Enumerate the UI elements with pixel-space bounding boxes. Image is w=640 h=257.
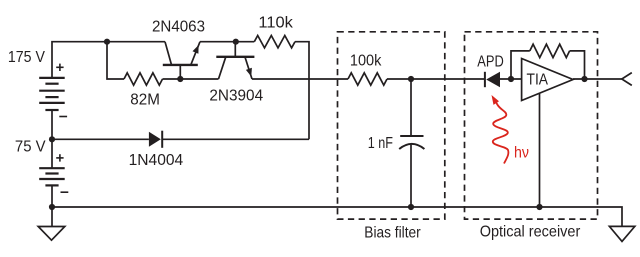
resistor 82M [124, 73, 163, 85]
wire capacitor column bottom [410, 145, 412, 207]
battery B1 175V plates [39, 78, 64, 110]
ground left [38, 227, 65, 241]
capacitor C1 bottom curved plate [399, 144, 424, 149]
diode D1 1N4004 cathode bar [161, 131, 163, 148]
transistor Q2 2N3904 emitter [245, 57, 252, 79]
node dot battery ground [49, 204, 55, 210]
node dot 100k/cap [408, 76, 414, 82]
wire APD anode to TIA input [500, 78, 522, 80]
svg-text:110k: 110k [258, 15, 294, 32]
transistor Q1 2N4063 emitter [191, 42, 200, 65]
svg-text:82M: 82M [130, 92, 160, 109]
photon arrow hv red squiggle [493, 102, 509, 164]
resistor 100k [348, 73, 387, 85]
battery B2 75V plates [39, 168, 64, 185]
svg-text:1 nF: 1 nF [368, 135, 393, 152]
node dot TIA output [581, 76, 587, 82]
wire TIA power lead [539, 94, 541, 207]
svg-text:Optical receiver: Optical receiver [480, 224, 581, 241]
svg-text:2N4063: 2N4063 [152, 19, 205, 36]
Bias filter dashed box [338, 32, 445, 219]
svg-text:TIA: TIA [527, 71, 549, 88]
battery B2 minus sign [61, 191, 69, 193]
wire TIA input node to feedback [511, 51, 530, 79]
diode D1 1N4004 triangle [149, 132, 161, 147]
wire diode line left [52, 138, 149, 140]
transistor Q2 2N3904 base bar [216, 56, 254, 58]
node dot cap bottom rail [408, 204, 414, 210]
battery B2 plus sign [56, 154, 63, 161]
photodiode APD triangle [486, 72, 500, 87]
resistor 110k [254, 36, 295, 48]
output connector chevron [622, 73, 632, 86]
svg-text:1N4004: 1N4004 [129, 152, 184, 169]
capacitor C1 top plate [400, 135, 423, 137]
ground right [609, 226, 634, 241]
Optical receiver dashed box [465, 32, 598, 219]
wire capacitor column top [410, 79, 412, 136]
wire battery1 bottom to 75V node to battery2 [51, 110, 53, 168]
wire TIA output to connector [573, 78, 622, 80]
wire feedback to output node [570, 51, 585, 79]
wire 110k to corner down to diode line [295, 42, 309, 140]
node dot TIA power bottom rail [536, 204, 542, 210]
photon arrowhead [492, 95, 500, 105]
transistor Q2 2N3904 base lead [234, 42, 236, 57]
node dot TIA input [508, 76, 514, 82]
node dot A [104, 39, 110, 45]
node dot Q1 base / 82M [177, 76, 183, 82]
transistor Q2 2N3904 collector [219, 57, 226, 79]
wire top rail left from battery to Q1 collector [52, 42, 165, 78]
svg-text:75 V: 75 V [15, 139, 46, 156]
svg-text:APD: APD [477, 54, 504, 71]
transistor Q2 emitter arrowhead [246, 68, 252, 77]
transistor Q1 2N4063 base bar [163, 64, 198, 66]
battery B1 plus sign [56, 64, 63, 71]
transistor Q1 emitter arrowhead [193, 45, 199, 54]
transistor Q1 2N4063 base lead [179, 65, 181, 79]
wire 82M to Q1 base node to Q2 collector [163, 78, 219, 80]
svg-text:Bias filter: Bias filter [364, 224, 421, 241]
node dot B top rail [233, 39, 239, 45]
op-amp U1 TIA triangle [522, 59, 573, 101]
wire diode line right [162, 138, 309, 140]
svg-text:175 V: 175 V [8, 49, 45, 66]
battery B1 minus sign [59, 116, 67, 118]
wire node A drop [107, 42, 124, 79]
transistor Q1 2N4063 collector [165, 42, 172, 65]
node dot 75V [49, 136, 55, 142]
svg-text:hν: hν [514, 144, 529, 161]
wire 100k to APD [387, 78, 485, 80]
wire battery2 bottom to bottom rail to ground [51, 185, 53, 226]
resistor TIA feedback [530, 44, 570, 57]
wire bottom rail [52, 207, 622, 226]
wire Q2 emitter to 100k [252, 78, 348, 80]
wire top rail right from Q1 emitter through node B to corner [200, 41, 254, 43]
photodiode APD cathode bar [484, 72, 486, 87]
svg-text:2N3904: 2N3904 [209, 87, 263, 104]
svg-text:100k: 100k [350, 53, 382, 70]
